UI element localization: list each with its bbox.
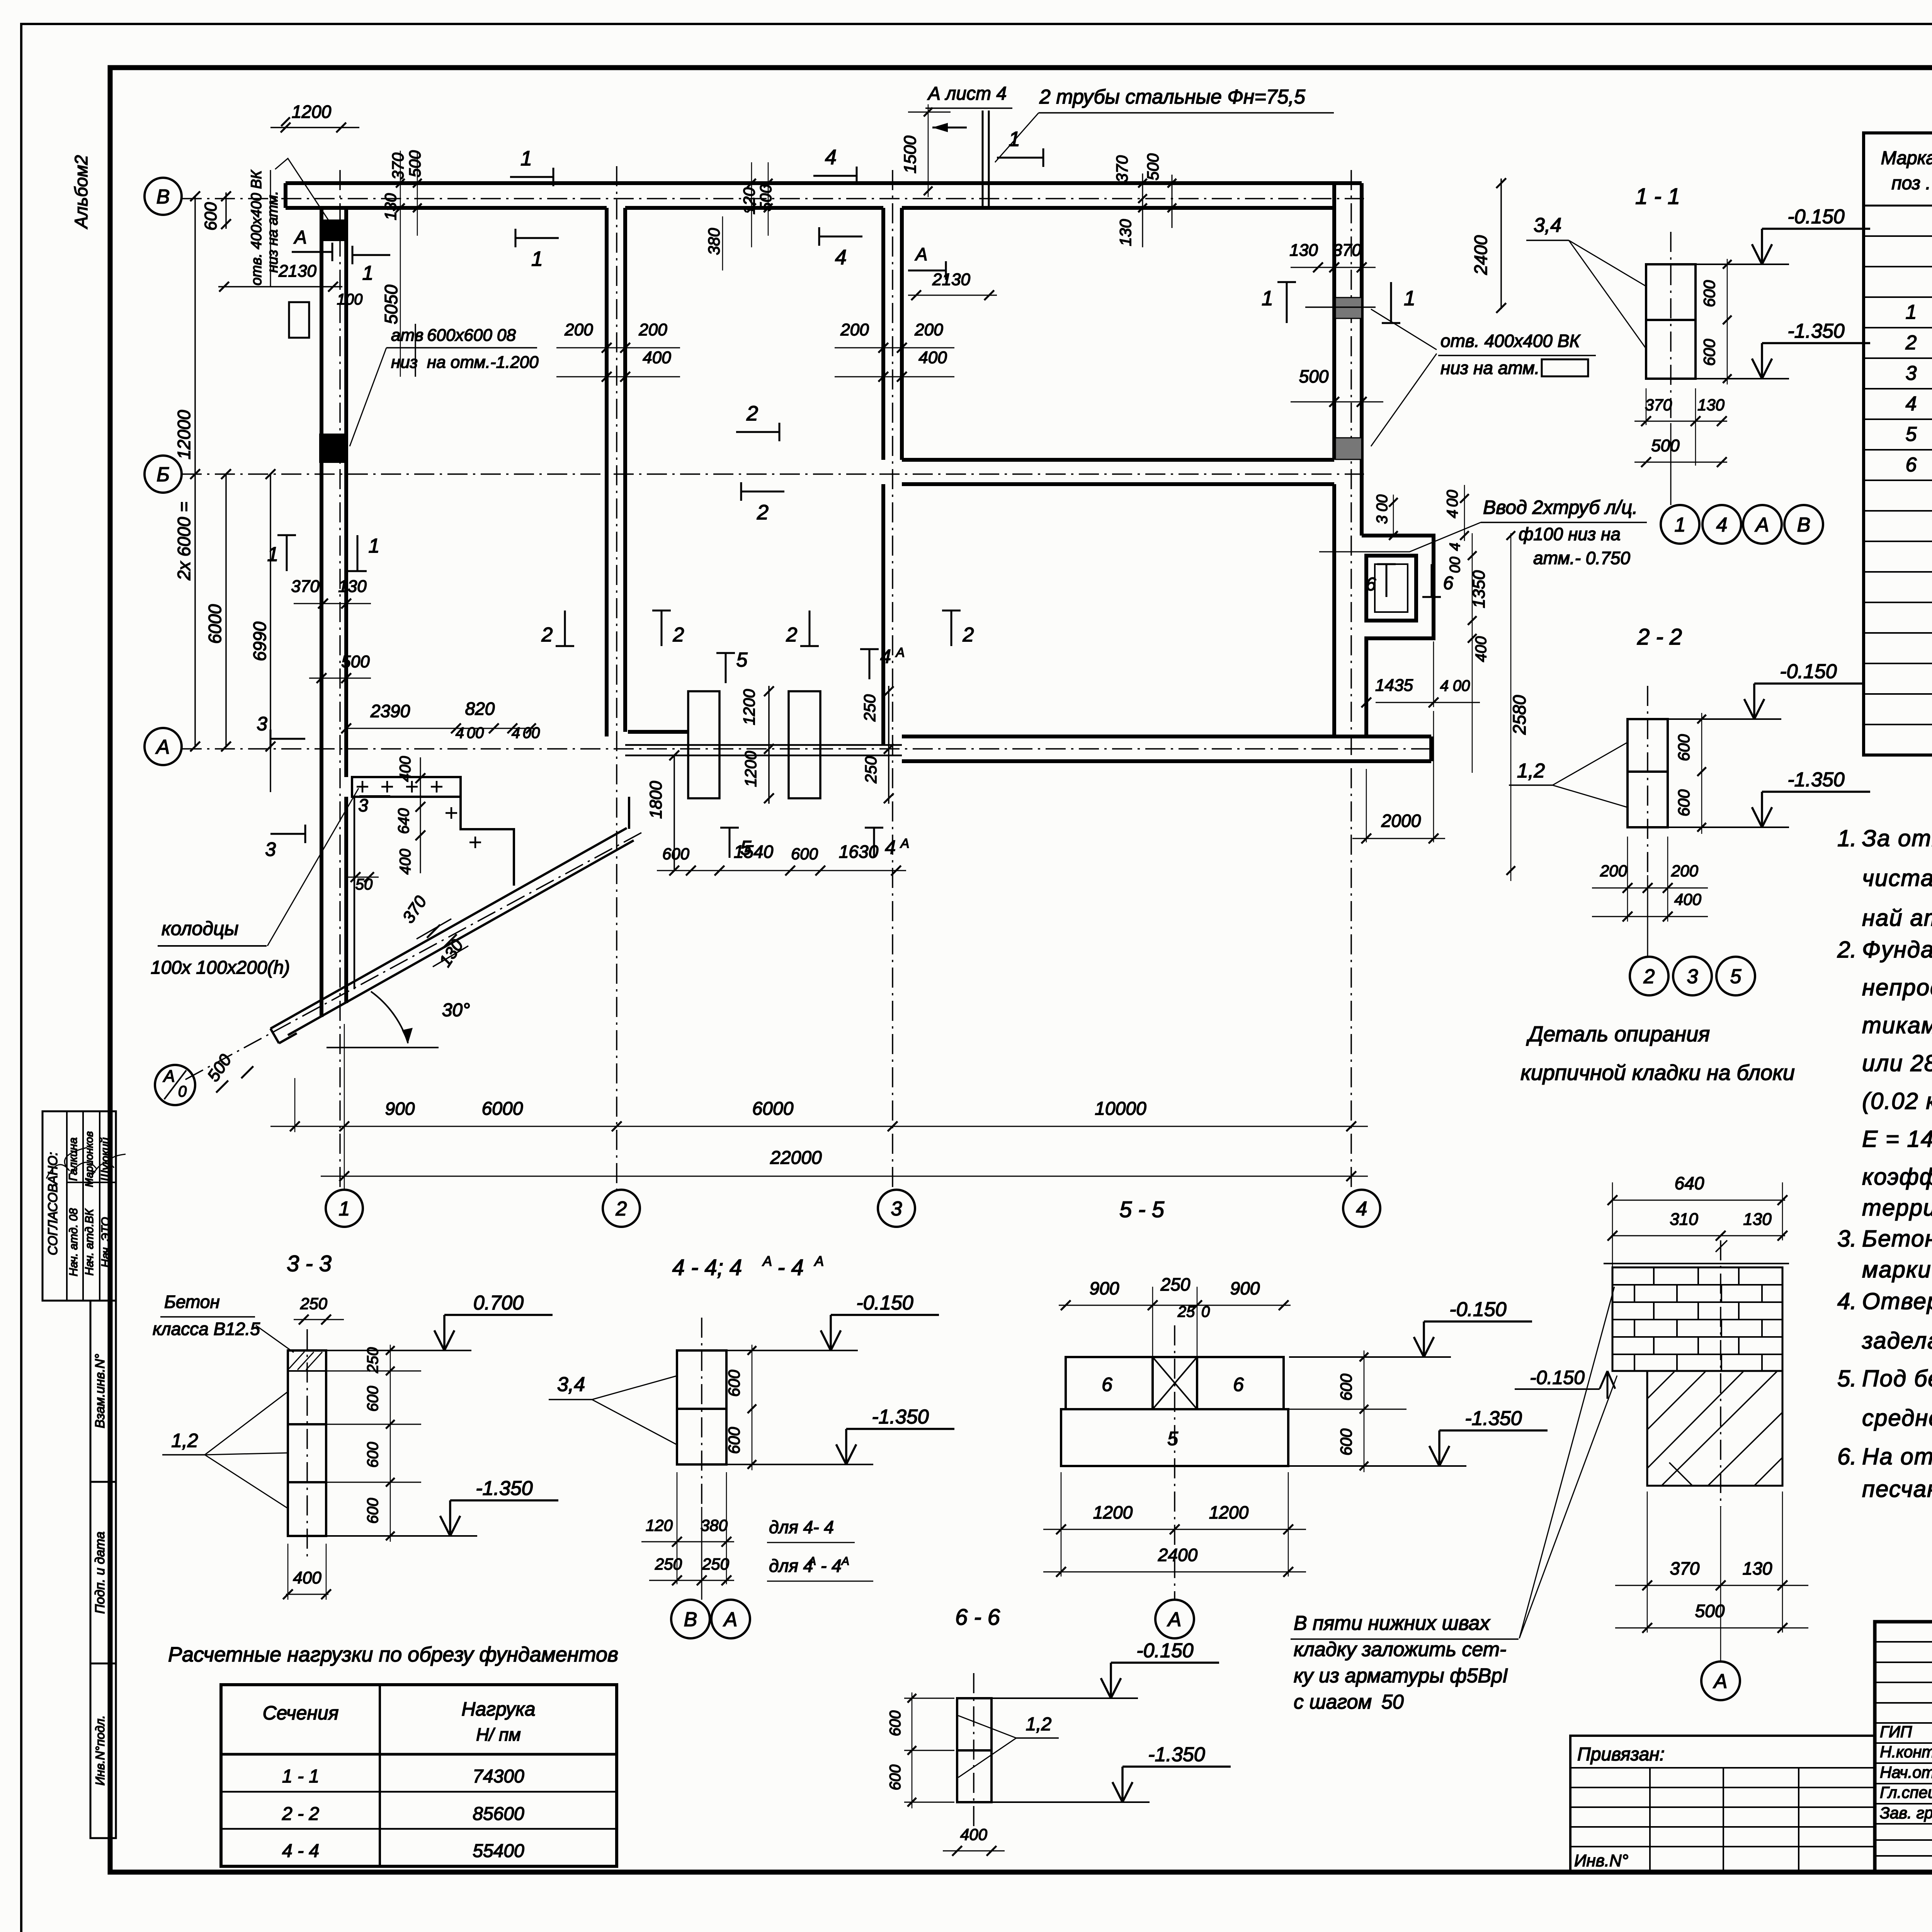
section 5-5 block bottom bbox=[1061, 1409, 1288, 1466]
wells leader bbox=[267, 788, 359, 946]
section 1-1 dims 600 bbox=[1727, 259, 1728, 384]
svg-text:4: 4 bbox=[835, 246, 847, 269]
svg-text:1200: 1200 bbox=[1093, 1502, 1133, 1522]
svg-text:3: 3 bbox=[1906, 362, 1917, 384]
svg-text:Бетонные блоки укладывать: Бетонные блоки укладывать на цементном р… bbox=[1862, 1226, 1932, 1252]
svg-text:Бетон: Бетон bbox=[164, 1292, 220, 1312]
axis line 2 vertical bbox=[616, 166, 617, 1190]
svg-text:марки 50 с перевязкой шво: марки 50 с перевязкой швов не менее 400 … bbox=[1862, 1257, 1932, 1282]
svg-text:В: В bbox=[156, 186, 170, 208]
svg-text:400: 400 bbox=[960, 1825, 988, 1844]
extension lines bottom bbox=[294, 1078, 296, 1132]
svg-text:территории- спокойный, гру: территории- спокойный, грунтовые боды от… bbox=[1862, 1195, 1932, 1221]
title block name grid bbox=[1875, 1641, 1932, 1643]
svg-text:22000: 22000 bbox=[770, 1148, 822, 1168]
svg-text:1350: 1350 bbox=[1469, 570, 1488, 608]
svg-text:В: В bbox=[684, 1609, 697, 1631]
dim 2130 with 100 bbox=[218, 286, 342, 287]
svg-text:820: 820 bbox=[465, 699, 495, 719]
svg-text:74300: 74300 bbox=[473, 1766, 524, 1787]
svg-text:поз .: поз . bbox=[1891, 173, 1931, 194]
section 4-4 axis circles bbox=[701, 1507, 702, 1600]
svg-text:2: 2 bbox=[616, 1198, 627, 1220]
section flag 1 near pipes bbox=[997, 157, 1043, 159]
svg-text:А: А bbox=[808, 1555, 816, 1568]
svg-text:для 4: для 4 bbox=[769, 1556, 813, 1576]
svg-text:Нач. атд.ВК: Нач. атд.ВК bbox=[83, 1208, 96, 1276]
svg-text:А: А bbox=[915, 244, 928, 264]
svg-text:3 - 3: 3 - 3 bbox=[287, 1251, 332, 1276]
svg-text:30°: 30° bbox=[442, 1000, 470, 1020]
svg-text:200: 200 bbox=[564, 320, 593, 339]
svg-text:Марка,: Марка, bbox=[1881, 148, 1932, 168]
svg-text:- 4: - 4 bbox=[777, 1255, 804, 1280]
svg-text:4 - 4; 4: 4 - 4; 4 bbox=[672, 1255, 742, 1280]
svg-text:-1.350: -1.350 bbox=[476, 1477, 533, 1500]
svg-text:600: 600 bbox=[791, 845, 818, 863]
svg-text:А лист 4: А лист 4 bbox=[927, 83, 1007, 104]
svg-text:2: 2 bbox=[541, 624, 553, 646]
svg-text:Гл.спец.: Гл.спец. bbox=[1880, 1783, 1932, 1801]
svg-text:600: 600 bbox=[1700, 338, 1718, 366]
section flags 2 row bbox=[564, 611, 566, 646]
axis circle Б bbox=[145, 456, 182, 493]
svg-text:600: 600 bbox=[364, 1442, 381, 1468]
wall axis Б right section bbox=[902, 458, 1334, 462]
left stamp table bbox=[43, 1111, 116, 1301]
svg-text:2 трубы стальные Фн=75,5: 2 трубы стальные Фн=75,5 bbox=[1039, 86, 1306, 108]
svg-text:900: 900 bbox=[385, 1099, 415, 1119]
leaders to right wall openings bbox=[1371, 309, 1437, 350]
dim 2400 right bbox=[1500, 179, 1502, 309]
bottom dim chain 900 6000 6000 10000 bbox=[270, 1126, 1368, 1127]
svg-text:200: 200 bbox=[1671, 862, 1699, 880]
svg-text:6.: 6. bbox=[1837, 1444, 1857, 1469]
diagonal wing wall bbox=[288, 840, 634, 1035]
partition wall axis 2 bbox=[605, 208, 609, 736]
svg-text:130: 130 bbox=[1743, 1210, 1772, 1229]
bottom wall А right of axis 3 bbox=[902, 735, 1431, 738]
svg-text:атв: атв bbox=[391, 326, 423, 345]
brick masonry bbox=[1612, 1267, 1782, 1371]
svg-text:2: 2 bbox=[963, 624, 974, 646]
axis circle 3 bbox=[878, 1190, 915, 1227]
svg-text:-0.150: -0.150 bbox=[1780, 660, 1837, 683]
section flags 1 at right wall bbox=[1286, 282, 1288, 323]
svg-text:2130: 2130 bbox=[932, 270, 970, 289]
svg-text:0: 0 bbox=[178, 1083, 187, 1100]
svg-text:Нагрука: Нагрука bbox=[461, 1698, 535, 1720]
pier detail left bbox=[688, 691, 719, 798]
svg-text:3: 3 bbox=[257, 713, 267, 735]
svg-text:100: 100 bbox=[337, 291, 363, 308]
svg-text:1 - 1: 1 - 1 bbox=[282, 1766, 319, 1787]
axis line В bbox=[182, 198, 1364, 199]
section 6-6 blocks bbox=[957, 1698, 992, 1802]
svg-text:1: 1 bbox=[267, 543, 279, 566]
svg-text:250: 250 bbox=[1160, 1274, 1190, 1294]
leader to hole 1 bbox=[275, 158, 332, 226]
axis line 4 vertical bbox=[1350, 170, 1352, 1190]
axis circle 1 bbox=[326, 1190, 363, 1227]
svg-text:00: 00 bbox=[1453, 677, 1470, 694]
svg-text:А: А bbox=[895, 645, 905, 660]
svg-text:130: 130 bbox=[338, 577, 367, 596]
pipes symbol bbox=[982, 111, 984, 209]
svg-text:-1.350: -1.350 bbox=[1787, 769, 1845, 791]
svg-text:Отверстия в фундаментах пос: Отверстия в фундаментах после прокладки … bbox=[1862, 1288, 1932, 1314]
axis line 1 vertical bbox=[339, 170, 341, 1190]
svg-text:1435: 1435 bbox=[1375, 676, 1413, 695]
svg-text:-1.350: -1.350 bbox=[1787, 320, 1845, 342]
axis circle 4 bbox=[1343, 1190, 1380, 1227]
svg-text:А: А bbox=[293, 227, 307, 248]
right wall axis 4 bbox=[1332, 183, 1336, 460]
angle 30 annotation bbox=[371, 992, 408, 1043]
svg-text:200: 200 bbox=[840, 320, 869, 339]
svg-text:640: 640 bbox=[395, 808, 412, 834]
svg-text:6: 6 bbox=[1443, 573, 1454, 594]
dims 2390 820 400 400 bbox=[346, 728, 537, 729]
section marks 5 bbox=[725, 653, 727, 683]
svg-text:55400: 55400 bbox=[473, 1841, 524, 1861]
section 3-3 level -1.350 bbox=[327, 1535, 477, 1537]
svg-text:4: 4 bbox=[1356, 1198, 1367, 1220]
svg-text:3: 3 bbox=[1374, 515, 1391, 524]
section 5-5 level -1.350 bbox=[1289, 1465, 1466, 1467]
svg-text:-0.150: -0.150 bbox=[1787, 206, 1845, 228]
spec table grid bbox=[1864, 133, 1932, 755]
svg-text:Фундаменты разработаны дл: Фундаменты разработаны для грунтов непуч… bbox=[1862, 937, 1932, 963]
privyazan box bbox=[1570, 1736, 1875, 1872]
section mark А right section bbox=[908, 270, 946, 272]
svg-text:ф100 низ на: ф100 низ на bbox=[1519, 524, 1621, 544]
svg-text:4: 4 bbox=[1447, 543, 1463, 551]
svg-text:1: 1 bbox=[531, 247, 543, 270]
svg-text:А: А bbox=[762, 1253, 772, 1269]
svg-text:1: 1 bbox=[369, 535, 380, 557]
svg-text:Н.контр.: Н.контр. bbox=[1880, 1743, 1932, 1761]
svg-text:6990: 6990 bbox=[250, 621, 270, 661]
svg-text:1800: 1800 bbox=[646, 781, 665, 819]
svg-text:Взам.инв.N°: Взам.инв.N° bbox=[93, 1354, 107, 1429]
section 2-2 axis circles bbox=[1647, 875, 1648, 957]
svg-text:250: 250 bbox=[655, 1555, 682, 1573]
section 2-2 level -1.350 bbox=[1668, 827, 1789, 828]
svg-text:250: 250 bbox=[364, 1347, 381, 1374]
svg-text:4: 4 bbox=[512, 724, 520, 742]
dims 250 250 piers bbox=[888, 686, 889, 804]
axis circle А/0 bbox=[155, 1065, 195, 1105]
section 3-3 dims right bbox=[390, 1345, 391, 1542]
svg-text:900: 900 bbox=[1090, 1278, 1119, 1298]
svg-text:-0.150: -0.150 bbox=[1449, 1298, 1507, 1321]
svg-text:3: 3 bbox=[358, 795, 368, 815]
svg-text:1 - 1: 1 - 1 bbox=[1635, 184, 1680, 209]
section flag 4 top bbox=[813, 175, 857, 177]
svg-text:для 4- 4: для 4- 4 bbox=[769, 1517, 834, 1537]
svg-text:600: 600 bbox=[662, 845, 690, 863]
svg-text:370: 370 bbox=[291, 577, 320, 596]
svg-text:1: 1 bbox=[1906, 301, 1917, 323]
room 6 box bbox=[1366, 556, 1416, 621]
section 2-2 dims 600 bbox=[1701, 713, 1702, 834]
section 1-1 blocks bbox=[1646, 264, 1696, 379]
svg-text:заделать бетоном класса: заделать бетоном класса В12.5 . bbox=[1862, 1328, 1932, 1354]
svg-text:5: 5 bbox=[1167, 1428, 1178, 1449]
svg-text:Б: Б bbox=[156, 464, 170, 486]
svg-text:6: 6 bbox=[1366, 574, 1376, 595]
svg-text:130: 130 bbox=[1743, 1558, 1772, 1578]
svg-text:100х 100х200(h): 100х 100х200(h) bbox=[151, 957, 290, 978]
svg-text:00: 00 bbox=[1444, 490, 1461, 507]
svg-text:А: А bbox=[1713, 1670, 1728, 1693]
svg-text:колодцы: колодцы bbox=[162, 918, 238, 939]
svg-text:1200: 1200 bbox=[1209, 1502, 1249, 1522]
svg-text:Шуюкий: Шуюкий bbox=[99, 1137, 112, 1181]
section 2-2 level -0.150 bbox=[1668, 718, 1781, 720]
bottom wall А middle section bbox=[625, 744, 902, 746]
axis circle В bbox=[145, 178, 182, 215]
axis line 3 vertical bbox=[892, 170, 893, 1190]
section marks 6 bbox=[1386, 564, 1388, 597]
wall openings right wall (stippled) bbox=[1335, 298, 1362, 318]
svg-text:130: 130 bbox=[1289, 241, 1318, 260]
svg-text:Марионков: Марионков bbox=[83, 1131, 95, 1187]
svg-text:600х600 08: 600х600 08 bbox=[427, 326, 516, 345]
svg-text:10000: 10000 bbox=[1095, 1099, 1146, 1119]
section 2-2 blocks bbox=[1628, 719, 1668, 827]
section 5-5 level -0.150 bbox=[1289, 1356, 1451, 1358]
section 1-1 axis circles bbox=[1670, 423, 1672, 505]
svg-text:130: 130 bbox=[1697, 396, 1725, 414]
svg-text:4: 4 bbox=[1716, 514, 1728, 536]
svg-text:4.: 4. bbox=[1837, 1288, 1857, 1314]
svg-text:400: 400 bbox=[293, 1568, 321, 1587]
brick detail axis circle bbox=[1701, 1662, 1740, 1700]
svg-text:1630: 1630 bbox=[839, 842, 879, 862]
svg-text:В: В bbox=[1797, 514, 1811, 536]
svg-text:370: 370 bbox=[1645, 396, 1672, 414]
vvod leader bbox=[1319, 522, 1481, 552]
axis circle А bbox=[145, 728, 182, 765]
dim 6990 left bbox=[270, 474, 271, 792]
svg-text:4: 4 bbox=[1440, 677, 1449, 694]
brick level -0.150 bbox=[1515, 1388, 1600, 1390]
svg-text:4 - 4: 4 - 4 bbox=[282, 1841, 319, 1861]
svg-text:отв. 400х400 ВК: отв. 400х400 ВК bbox=[248, 169, 265, 285]
svg-text:непросадочных со следующими: непросадочных со следующими нармативными… bbox=[1862, 975, 1932, 1000]
svg-text:Инв.N°подл.: Инв.N°подл. bbox=[93, 1715, 107, 1786]
svg-text:2400: 2400 bbox=[1158, 1545, 1198, 1565]
svg-text:250: 250 bbox=[862, 756, 880, 784]
section 4-4 level -1.350 bbox=[726, 1464, 873, 1465]
svg-text:370: 370 bbox=[1333, 241, 1361, 260]
leader to hole 2 bbox=[350, 348, 386, 446]
svg-text:4: 4 bbox=[456, 724, 464, 742]
svg-text:400: 400 bbox=[1473, 636, 1490, 662]
section marks 1-1 in room bbox=[286, 535, 288, 571]
svg-text:-1.350: -1.350 bbox=[1465, 1407, 1522, 1430]
top wall axis В bbox=[286, 181, 1362, 185]
svg-text:1: 1 bbox=[362, 262, 374, 284]
svg-text:Альбом2: Альбом2 bbox=[71, 155, 91, 229]
svg-text:2х 6000 =: 2х 6000 = bbox=[174, 502, 194, 580]
section 6-6 levels bbox=[992, 1697, 1138, 1699]
svg-text:6000: 6000 bbox=[752, 1099, 794, 1119]
section 4-4 blocks bbox=[677, 1350, 726, 1464]
svg-text:0.700: 0.700 bbox=[473, 1292, 524, 1314]
niche lower right bbox=[1362, 536, 1434, 736]
svg-text:В пяти нижних швах: В пяти нижних швах bbox=[1294, 1612, 1491, 1634]
svg-text:400: 400 bbox=[1674, 890, 1702, 908]
svg-text:1: 1 bbox=[1404, 287, 1415, 310]
svg-text:500: 500 bbox=[1144, 153, 1162, 180]
svg-text:600: 600 bbox=[1337, 1373, 1355, 1401]
svg-text:5.: 5. bbox=[1837, 1366, 1857, 1391]
section flag 1 top bbox=[510, 176, 553, 178]
svg-text:най атметке: най атметке bbox=[1862, 905, 1932, 931]
dims 400 1350 400 right side bbox=[1472, 533, 1473, 773]
svg-text:400: 400 bbox=[397, 849, 414, 875]
dims 400 640 400 wells bbox=[420, 757, 421, 873]
svg-text:25: 25 bbox=[1177, 1303, 1195, 1320]
svg-text:600: 600 bbox=[887, 1765, 904, 1791]
svg-text:310: 310 bbox=[1670, 1210, 1698, 1229]
svg-text:Привязан:: Привязан: bbox=[1577, 1744, 1665, 1765]
dim 500 axis1 wall bbox=[309, 678, 371, 679]
svg-text:Сечения: Сечения bbox=[263, 1702, 339, 1724]
stamp strip cells bbox=[90, 1301, 116, 1482]
axis line А bbox=[182, 748, 1431, 750]
stamp signatures bbox=[46, 1148, 126, 1179]
section marks 4A bbox=[869, 649, 871, 679]
brick note leaders bbox=[1519, 1287, 1614, 1638]
svg-text:чистага пала первага этаж: чистага пала первага этажа, соответствую… bbox=[1862, 865, 1932, 891]
svg-text:А: А bbox=[900, 836, 910, 851]
svg-text:600: 600 bbox=[1700, 280, 1718, 307]
svg-text:600: 600 bbox=[364, 1386, 381, 1412]
section marks 3 bbox=[270, 738, 305, 740]
svg-text:500: 500 bbox=[757, 184, 775, 211]
svg-text:200: 200 bbox=[638, 320, 667, 339]
svg-text:3,4: 3,4 bbox=[1534, 214, 1561, 236]
svg-text:2 - 2: 2 - 2 bbox=[1637, 624, 1682, 650]
svg-text:- 4: - 4 bbox=[821, 1556, 842, 1576]
svg-text:400: 400 bbox=[397, 756, 414, 782]
svg-text:1200: 1200 bbox=[742, 751, 760, 787]
svg-text:отв. 400х400 ВК: отв. 400х400 ВК bbox=[1440, 331, 1581, 351]
section 5-5 blocks top row bbox=[1066, 1357, 1284, 1409]
load table grid bbox=[221, 1685, 617, 1866]
svg-text:среднезернистого песка тол: среднезернистого песка толщиной 100 мм . bbox=[1862, 1405, 1932, 1431]
svg-text:На отметке - 0.150 выполнить: На отметке - 0.150 выполнить гидроизоляц… bbox=[1862, 1444, 1932, 1469]
svg-text:А: А bbox=[155, 736, 170, 759]
svg-text:коэффициент безопасности п: коэффициент безопасности по грунту Кᵣ = … bbox=[1862, 1164, 1932, 1190]
svg-text:12000: 12000 bbox=[174, 410, 194, 459]
axis line Б bbox=[182, 473, 1364, 475]
svg-text:ГИП: ГИП bbox=[1880, 1723, 1912, 1741]
svg-text:Галкина: Галкина bbox=[67, 1138, 80, 1181]
svg-text:2: 2 bbox=[673, 624, 684, 646]
svg-text:1,2: 1,2 bbox=[171, 1430, 198, 1451]
svg-text:400: 400 bbox=[643, 348, 671, 367]
svg-text:6: 6 bbox=[1906, 454, 1917, 476]
svg-text:2 - 2: 2 - 2 bbox=[282, 1804, 319, 1824]
wall opening squares left wall (solid) bbox=[320, 219, 348, 241]
brick detail lower dims bbox=[1720, 1507, 1721, 1662]
svg-text:класса В12.5: класса В12.5 bbox=[153, 1319, 260, 1339]
svg-text:низ: низ bbox=[391, 353, 418, 372]
svg-text:6000: 6000 bbox=[205, 604, 225, 644]
svg-text:2: 2 bbox=[746, 402, 758, 425]
svg-text:Под бетонными блоками выпо: Под бетонными блоками выполнить подготов… bbox=[1862, 1366, 1932, 1391]
partition wall axis 3 bbox=[881, 208, 885, 460]
svg-text:Нач. ЭТО: Нач. ЭТО bbox=[99, 1217, 112, 1267]
dim chain 600 1540 600 1630 bbox=[657, 870, 906, 871]
svg-text:500: 500 bbox=[1651, 436, 1680, 455]
svg-text:низ на атм.: низ на атм. bbox=[1440, 358, 1539, 378]
left wall axis 1 bbox=[320, 208, 323, 1017]
svg-text:1: 1 bbox=[1262, 287, 1273, 310]
svg-text:2: 2 bbox=[1643, 966, 1655, 988]
svg-text:А: А bbox=[1755, 514, 1769, 536]
svg-text:600: 600 bbox=[1675, 734, 1693, 761]
svg-text:00: 00 bbox=[1374, 495, 1391, 512]
svg-text:5 - 5: 5 - 5 bbox=[1119, 1197, 1165, 1222]
svg-text:5: 5 bbox=[1730, 966, 1742, 988]
svg-text:2130: 2130 bbox=[278, 262, 316, 281]
svg-text:50: 50 bbox=[1381, 1691, 1404, 1713]
svg-text:600: 600 bbox=[887, 1711, 904, 1736]
svg-text:85600: 85600 bbox=[473, 1804, 524, 1824]
svg-text:За относительную атметку 0.0: За относительную атметку 0.000 принята а… bbox=[1862, 825, 1932, 851]
svg-text:00: 00 bbox=[467, 724, 484, 742]
svg-text:380: 380 bbox=[701, 1516, 728, 1534]
svg-text:1,2: 1,2 bbox=[1517, 760, 1545, 782]
svg-text:4: 4 bbox=[825, 146, 837, 169]
svg-text:Инв.N°: Инв.N° bbox=[1574, 1851, 1628, 1870]
svg-text:или 28°; нармативное удель: или 28°; нармативное удельное сцепление … bbox=[1862, 1050, 1932, 1076]
svg-text:песчаного раствора состава: песчаного раствора состава 1: 2 толщиной… bbox=[1862, 1476, 1932, 1502]
svg-text:250: 250 bbox=[702, 1555, 730, 1573]
section 1-1 level -0.150 bbox=[1696, 264, 1789, 265]
svg-text:400: 400 bbox=[918, 348, 947, 367]
svg-text:1540: 1540 bbox=[734, 842, 774, 862]
svg-text:А: А bbox=[162, 1067, 175, 1086]
svg-text:1: 1 bbox=[520, 147, 532, 170]
svg-text:1200: 1200 bbox=[740, 689, 758, 725]
section mark 1a bbox=[352, 254, 390, 256]
svg-text:00: 00 bbox=[1447, 557, 1463, 573]
svg-text:640: 640 bbox=[1675, 1173, 1704, 1193]
svg-text:3: 3 bbox=[265, 838, 276, 860]
svg-text:А: А bbox=[814, 1253, 824, 1269]
svg-text:250: 250 bbox=[861, 694, 879, 722]
svg-text:4: 4 bbox=[1444, 510, 1461, 518]
svg-text:ку из арматуры ф5ВрI: ку из арматуры ф5ВрI bbox=[1294, 1665, 1508, 1687]
svg-text:2: 2 bbox=[786, 624, 798, 646]
wells steps wall bbox=[461, 797, 514, 886]
diagonal wing axis bbox=[182, 833, 641, 1081]
wells band bbox=[352, 777, 461, 797]
svg-text:2: 2 bbox=[757, 501, 769, 524]
svg-text:-1.350: -1.350 bbox=[872, 1406, 929, 1428]
svg-text:2: 2 bbox=[1905, 332, 1917, 354]
svg-text:00: 00 bbox=[523, 724, 540, 742]
svg-text:2400: 2400 bbox=[1471, 235, 1491, 275]
svg-text:380: 380 bbox=[705, 228, 723, 255]
